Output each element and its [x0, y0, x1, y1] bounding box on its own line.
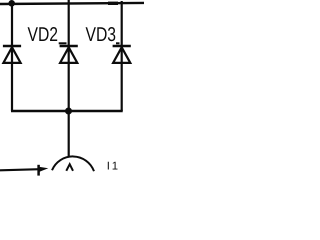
wire bottom bus: [11, 110, 123, 112]
meter pointer arrowhead: [66, 164, 73, 171]
wire input lead: [0, 169, 40, 170]
junction node bottom: [65, 108, 72, 115]
scan mark after VD2: [59, 42, 67, 44]
svg-text:I1: I1: [107, 160, 120, 172]
wire top bus: [0, 3, 144, 4]
wire VD2 branch: [68, 0, 70, 111]
svg-text:VD3: VD3: [86, 24, 117, 46]
meter I1 body (circle arc, lower part faded): [52, 156, 94, 171]
svg-text:VD2: VD2: [28, 24, 59, 46]
diode VD3: [113, 46, 131, 63]
junction node top-left: [8, 0, 15, 7]
arrowhead on input lead: [39, 165, 49, 176]
diode VD2: [60, 46, 78, 63]
wire VD1 branch: [11, 4, 13, 112]
scan blotch on top bus: [108, 2, 118, 5]
wire VD3 branch: [121, 1, 123, 111]
wire from bottom node to meter: [68, 111, 70, 157]
scan mark after VD3: [116, 42, 120, 44]
diode VD1: [3, 46, 21, 63]
